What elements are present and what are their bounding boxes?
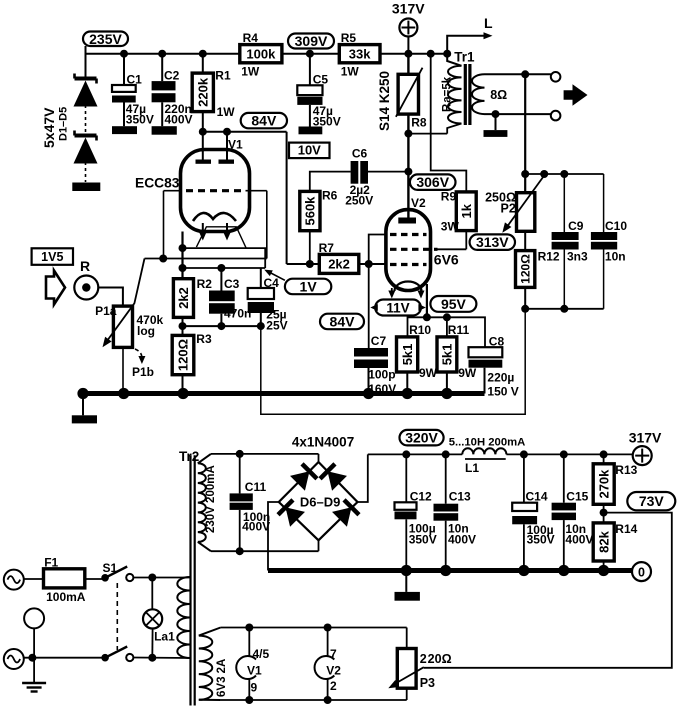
svg-text:4x1N4007: 4x1N4007 bbox=[292, 435, 354, 450]
svg-text:C9: C9 bbox=[568, 219, 584, 233]
svg-text:S1: S1 bbox=[103, 561, 118, 575]
svg-text:84V: 84V bbox=[330, 313, 356, 329]
svg-text:Tr2: Tr2 bbox=[179, 449, 199, 464]
svg-text:V1: V1 bbox=[228, 138, 243, 152]
svg-text:220k: 220k bbox=[195, 77, 210, 107]
svg-text:C11: C11 bbox=[245, 480, 267, 494]
svg-text:5k1: 5k1 bbox=[400, 344, 415, 366]
svg-text:1W: 1W bbox=[217, 105, 236, 119]
svg-text:R14: R14 bbox=[615, 522, 637, 536]
svg-text:R3: R3 bbox=[196, 332, 212, 346]
svg-text:220µ: 220µ bbox=[487, 371, 514, 385]
svg-text:P1b: P1b bbox=[132, 365, 154, 379]
svg-text:V1: V1 bbox=[247, 664, 262, 678]
svg-text:C5: C5 bbox=[313, 73, 329, 87]
svg-text:C13: C13 bbox=[449, 490, 471, 504]
svg-text:C4: C4 bbox=[264, 276, 280, 290]
svg-text:P1a: P1a bbox=[95, 304, 117, 318]
svg-text:C6: C6 bbox=[352, 147, 368, 161]
svg-text:235V: 235V bbox=[89, 31, 122, 47]
svg-text:120Ω: 120Ω bbox=[518, 254, 532, 284]
svg-text:P3: P3 bbox=[420, 676, 435, 690]
svg-text:R9: R9 bbox=[441, 190, 457, 204]
svg-text:D1–D5: D1–D5 bbox=[58, 107, 70, 141]
svg-text:Tr1: Tr1 bbox=[454, 50, 475, 65]
svg-text:560k: 560k bbox=[303, 196, 318, 226]
svg-text:2: 2 bbox=[330, 679, 337, 693]
svg-text:317V: 317V bbox=[629, 430, 662, 446]
svg-text:C10: C10 bbox=[605, 219, 627, 233]
svg-text:C12: C12 bbox=[410, 490, 432, 504]
svg-text:1W: 1W bbox=[341, 65, 360, 79]
svg-text:5...10H 200mA: 5...10H 200mA bbox=[449, 437, 526, 449]
svg-text:11V: 11V bbox=[386, 300, 409, 315]
svg-text:0: 0 bbox=[638, 565, 645, 579]
svg-text:309V: 309V bbox=[295, 33, 328, 49]
svg-text:400V: 400V bbox=[448, 533, 476, 547]
svg-text:73V: 73V bbox=[639, 493, 665, 509]
svg-text:95V: 95V bbox=[441, 296, 467, 312]
svg-text:L1: L1 bbox=[465, 461, 479, 475]
svg-text:150 V: 150 V bbox=[487, 385, 518, 399]
svg-text:5x47V: 5x47V bbox=[41, 107, 57, 148]
svg-text:350V: 350V bbox=[126, 112, 154, 126]
svg-text:ECC83: ECC83 bbox=[135, 176, 180, 191]
svg-text:P2: P2 bbox=[501, 202, 516, 216]
svg-text:8Ω: 8Ω bbox=[490, 88, 507, 102]
svg-text:C8: C8 bbox=[489, 335, 505, 349]
svg-text:L: L bbox=[484, 15, 493, 31]
svg-text:160V: 160V bbox=[368, 382, 396, 396]
svg-text:9W: 9W bbox=[458, 366, 477, 380]
svg-text:7: 7 bbox=[330, 647, 337, 661]
svg-text:400V: 400V bbox=[242, 520, 270, 534]
svg-text:R12: R12 bbox=[538, 250, 560, 264]
svg-text:313V: 313V bbox=[476, 234, 509, 250]
svg-text:320V: 320V bbox=[405, 430, 438, 446]
svg-text:9W: 9W bbox=[419, 366, 438, 380]
svg-text:3W: 3W bbox=[441, 220, 460, 234]
svg-text:317V: 317V bbox=[392, 1, 425, 17]
svg-text:log: log bbox=[137, 324, 155, 338]
svg-text:306V: 306V bbox=[416, 174, 449, 190]
svg-text:270k: 270k bbox=[596, 469, 611, 499]
svg-text:100p: 100p bbox=[368, 368, 395, 382]
svg-text:100k: 100k bbox=[246, 46, 276, 61]
svg-text:1k: 1k bbox=[459, 203, 474, 218]
svg-text:R7: R7 bbox=[319, 241, 335, 255]
svg-text:3n3: 3n3 bbox=[567, 250, 588, 264]
svg-text:82k: 82k bbox=[596, 530, 611, 552]
svg-text:120Ω: 120Ω bbox=[176, 339, 191, 371]
svg-text:350V: 350V bbox=[409, 533, 437, 547]
svg-text:R: R bbox=[80, 258, 90, 274]
svg-text:400V: 400V bbox=[165, 112, 193, 126]
svg-text:C1: C1 bbox=[127, 73, 143, 87]
svg-text:33k: 33k bbox=[349, 46, 371, 61]
svg-text:84V: 84V bbox=[251, 113, 277, 129]
svg-text:2k2: 2k2 bbox=[176, 287, 191, 309]
svg-text:6V6: 6V6 bbox=[434, 252, 459, 268]
svg-text:R8: R8 bbox=[411, 116, 427, 130]
svg-text:10V: 10V bbox=[298, 143, 321, 158]
svg-text:R10: R10 bbox=[409, 323, 431, 337]
svg-text:470n: 470n bbox=[224, 307, 251, 321]
svg-text:C14: C14 bbox=[526, 490, 548, 504]
svg-text:1V: 1V bbox=[300, 278, 318, 294]
svg-text:100mA: 100mA bbox=[46, 590, 86, 604]
svg-text:9: 9 bbox=[251, 681, 258, 695]
svg-text:R11: R11 bbox=[448, 323, 470, 337]
svg-text:R5: R5 bbox=[341, 31, 357, 45]
svg-text:2k2: 2k2 bbox=[328, 257, 350, 272]
svg-text:10n: 10n bbox=[605, 250, 626, 264]
svg-text:F1: F1 bbox=[44, 556, 58, 570]
svg-text:6V3 2A: 6V3 2A bbox=[216, 659, 228, 697]
svg-text:R4: R4 bbox=[243, 31, 259, 45]
svg-text:230V 200mA: 230V 200mA bbox=[205, 465, 217, 533]
svg-text:250V: 250V bbox=[345, 194, 373, 208]
svg-text:S14 K250: S14 K250 bbox=[377, 71, 392, 131]
svg-text:V2: V2 bbox=[326, 664, 341, 678]
svg-text:La1: La1 bbox=[154, 630, 175, 644]
svg-text:C15: C15 bbox=[566, 490, 588, 504]
svg-text:2 20Ω: 2 20Ω bbox=[420, 652, 452, 666]
svg-text:C7: C7 bbox=[371, 334, 387, 348]
svg-text:R1: R1 bbox=[215, 69, 231, 83]
svg-text:25V: 25V bbox=[266, 318, 287, 332]
svg-text:R13: R13 bbox=[615, 463, 637, 477]
svg-text:1V5: 1V5 bbox=[41, 250, 63, 264]
svg-text:R2: R2 bbox=[197, 277, 213, 291]
svg-text:350V: 350V bbox=[527, 533, 555, 547]
svg-text:5k1: 5k1 bbox=[440, 344, 455, 366]
svg-text:R a=5k: R a=5k bbox=[442, 76, 454, 112]
svg-text:400V: 400V bbox=[565, 533, 593, 547]
svg-text:R6: R6 bbox=[322, 189, 338, 203]
svg-text:C2: C2 bbox=[164, 69, 180, 83]
svg-text:4/5: 4/5 bbox=[253, 647, 270, 661]
svg-text:350V: 350V bbox=[313, 114, 341, 128]
svg-text:V2: V2 bbox=[411, 196, 426, 210]
svg-text:C3: C3 bbox=[224, 277, 240, 291]
svg-text:1W: 1W bbox=[241, 65, 260, 79]
svg-text:D6–D9: D6–D9 bbox=[300, 495, 340, 510]
